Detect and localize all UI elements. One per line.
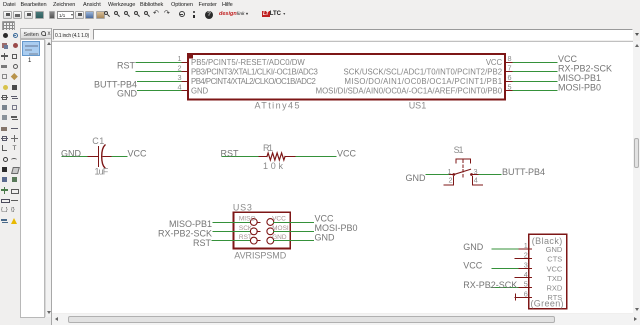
pin US1.5 stub (505, 90, 513, 92)
wire VCC to serial pin3 (492, 268, 519, 270)
svg-text:VCC: VCC (463, 261, 483, 271)
wire BUTT-PB4 to US1 pin3 (138, 81, 185, 83)
US3 pad SCK (250, 228, 257, 235)
svg-text:GND: GND (546, 245, 563, 254)
resistor R1 left lead (259, 156, 267, 158)
capacitor C1 (62, 145, 127, 168)
pin US1.1 stub (182, 62, 188, 64)
pin US1.2 stub (182, 71, 188, 73)
switch S1 (426, 159, 501, 185)
svg-text:RST: RST (239, 234, 252, 241)
wire R1 to VCC (296, 156, 336, 158)
svg-text:GND: GND (117, 89, 138, 99)
wire US1 pin8 to VCC (513, 62, 557, 64)
svg-text:1: 1 (177, 54, 181, 63)
svg-text:SCK: SCK (239, 225, 253, 232)
pin US1.7 stub (505, 71, 513, 73)
svg-text:VCC: VCC (272, 216, 286, 223)
IC US1 ATtiny45 body (188, 54, 505, 100)
svg-text:RX-PB2-SCK: RX-PB2-SCK (558, 64, 612, 74)
resistor R1 (222, 153, 336, 160)
svg-text:VCC: VCC (315, 214, 335, 224)
panel scrollbar (45, 40, 52, 317)
connector US3 body (234, 212, 291, 248)
S1 contact dot left (452, 173, 455, 176)
pin US1.4 stub (182, 90, 188, 92)
svg-text:5: 5 (524, 280, 528, 289)
US3 pad tick SCK (257, 231, 260, 233)
US3 pad tick RST (257, 240, 260, 242)
svg-text:AVRISPSMD: AVRISPSMD (234, 251, 286, 261)
svg-text:3: 3 (177, 73, 181, 82)
svg-text:GND: GND (272, 234, 287, 241)
wire GND to serial pin1 (492, 248, 519, 250)
US3 pad VCC (267, 219, 274, 226)
capacitor C1 right lead (103, 156, 112, 158)
svg-text:MISO: MISO (239, 216, 256, 223)
S1 switch arm (454, 169, 471, 174)
wire US1 pin7 to RX-PB2-SCK (513, 71, 557, 73)
pin serial.4 stub (515, 277, 532, 279)
wire GND to US1 pin4 (138, 90, 185, 92)
wire US3 to GND (274, 240, 314, 242)
pin US1.3 stub (182, 81, 188, 83)
svg-text:RX-PB2-SCK: RX-PB2-SCK (463, 280, 517, 290)
US1 origin mark (187, 53, 193, 59)
svg-text:MOSI-PB0: MOSI-PB0 (558, 83, 601, 93)
vertical scrollbar (633, 41, 640, 314)
wire US3 to VCC (274, 222, 314, 224)
svg-text:VCC: VCC (546, 264, 562, 273)
connector serial body (529, 234, 567, 309)
svg-text:1: 1 (524, 241, 528, 250)
capacitor C1 curved plate (102, 145, 105, 168)
svg-text:RXD: RXD (546, 284, 562, 293)
S1 bottom hook right (473, 176, 483, 185)
svg-text:TXD: TXD (547, 274, 563, 283)
svg-text:6: 6 (524, 289, 528, 298)
svg-text:VCC: VCC (128, 149, 148, 159)
page thumbnail (selected) (22, 41, 40, 56)
S1 actuator staple (456, 159, 470, 163)
pin US1.6 stub (505, 81, 513, 83)
svg-text:US3: US3 (233, 203, 252, 213)
capacitor C1 left lead (88, 156, 98, 158)
wire US1 pin5 to MOSI-PB0 (513, 90, 557, 92)
resistor R1 right lead (285, 156, 296, 158)
horizontal scrollbar (52, 314, 640, 325)
svg-text:MISO/DO/AIN1/OC0B/OC1A/PCINT1/: MISO/DO/AIN1/OC0B/OC1A/PCINT1/PB1 (345, 77, 503, 86)
svg-text:2: 2 (448, 176, 452, 185)
wire RST to US3 (212, 240, 250, 242)
svg-text:PB5/PCINT5/-RESET/ADC0/DW: PB5/PCINT5/-RESET/ADC0/DW (191, 58, 305, 67)
svg-text:R1: R1 (263, 143, 273, 153)
svg-text:RST: RST (193, 238, 212, 248)
svg-text:PB4/PCINT4/XTAL2/CLKO/OC1B/ADC: PB4/PCINT4/XTAL2/CLKO/OC1B/ADC2 (191, 77, 316, 86)
svg-text:1uF: 1uF (95, 167, 109, 177)
US3 pad GND (267, 237, 274, 244)
wire GND to S1 (426, 174, 450, 176)
US3 pad RST (250, 237, 257, 244)
pin S1.3 stub (473, 174, 479, 176)
svg-text:GND: GND (315, 232, 336, 242)
svg-text:US1: US1 (409, 101, 427, 111)
svg-text:1: 1 (447, 167, 451, 176)
wire US1 pin2 open (136, 71, 184, 73)
US3 pad tick MISO (257, 222, 260, 224)
wire C1 to VCC (112, 156, 127, 158)
svg-text:PB3/PCINT3/XTAL1/CLKI/-OC1B/AD: PB3/PCINT3/XTAL1/CLKI/-OC1B/ADC3 (191, 68, 318, 77)
wire RST to R1 (222, 156, 259, 158)
S1 bottom hook left (444, 176, 454, 185)
wire RX-PB2-SCK to US3 (213, 231, 250, 233)
wire RST to US1 pin1 (136, 62, 184, 64)
svg-text:S1: S1 (454, 145, 464, 155)
pin S1.1 stub (450, 174, 454, 176)
wire US3 to MOSI-PB0 (274, 231, 314, 233)
connector serial header (491, 234, 567, 309)
wire US1 pin6 to MISO-PB1 (513, 81, 557, 83)
svg-text:RTS: RTS (547, 293, 562, 302)
svg-text:GND: GND (191, 87, 208, 96)
svg-text:MISO-PB1: MISO-PB1 (558, 73, 601, 83)
pin serial.5 stub (519, 287, 532, 289)
svg-text:SCK/USCK/SCL/ADC1/T0/INT0/PCIN: SCK/USCK/SCL/ADC1/T0/INT0/PCINT2/PB2 (344, 68, 503, 77)
coordinate bar (52, 28, 640, 41)
svg-text:MOSI/DI/SDA/AIN0/OC0A/-OC1A/AR: MOSI/DI/SDA/AIN0/OC0A/-OC1A/AREF/PCINT0/… (316, 87, 503, 96)
svg-text:VCC: VCC (486, 58, 503, 67)
pin serial.3 stub (519, 268, 532, 270)
connector US3 AVRISPSMD (212, 212, 314, 248)
capacitor C1 plate (98, 147, 100, 167)
pin serial.6 cross tick (515, 294, 517, 300)
toolbar row 2: grid icon (2, 21, 15, 32)
pin serial.2 stub (515, 258, 532, 260)
wire RX-PB2-SCK to serial pin5 (491, 287, 519, 289)
svg-text:GND: GND (61, 149, 82, 159)
svg-text:8: 8 (508, 54, 512, 63)
schematic SVG (52, 41, 633, 313)
pin US1.8 stub (505, 62, 513, 64)
svg-text:ATtiny45: ATtiny45 (255, 101, 300, 111)
resistor R1 zigzag (267, 153, 285, 160)
US3 pad MISO (250, 219, 257, 226)
svg-text:7: 7 (508, 64, 512, 73)
svg-text:4: 4 (474, 176, 478, 185)
svg-text:CTS: CTS (547, 255, 562, 264)
svg-text:6: 6 (508, 73, 512, 82)
canvas (52, 41, 633, 313)
svg-text:5: 5 (508, 83, 512, 92)
US3 pad MOSI (267, 228, 274, 235)
pin serial.6 stub (515, 297, 532, 299)
svg-text:3: 3 (474, 167, 478, 176)
svg-text:MOSI: MOSI (272, 225, 289, 232)
svg-text:RST: RST (117, 61, 136, 71)
svg-text:BUTT-PB4: BUTT-PB4 (502, 167, 545, 177)
S1 actuator dashed line (462, 160, 464, 179)
wire GND to C1 (62, 156, 88, 158)
svg-text:VCC: VCC (558, 54, 578, 64)
toolbar row 1 (0, 0, 640, 19)
svg-text:4: 4 (177, 83, 181, 92)
svg-text:3: 3 (524, 260, 528, 269)
svg-text:RST: RST (221, 149, 240, 159)
svg-text:10k: 10k (263, 161, 284, 171)
svg-text:GND: GND (463, 242, 484, 252)
svg-text:2: 2 (524, 251, 528, 260)
wire S1 to BUTT-PB4 (479, 174, 501, 176)
svg-text:C1: C1 (92, 136, 104, 146)
pin serial.1 stub (519, 248, 532, 250)
menu bar (0, 0, 640, 10)
svg-text:VCC: VCC (337, 149, 357, 159)
svg-text:4: 4 (524, 270, 528, 279)
left command toolbar (0, 30, 20, 325)
svg-text:GND: GND (406, 173, 427, 183)
Seiten panel (20, 28, 52, 325)
wire MISO-PB1 to US3 (213, 222, 250, 224)
svg-text:2: 2 (177, 64, 181, 73)
S1 contact dot right (470, 173, 473, 176)
